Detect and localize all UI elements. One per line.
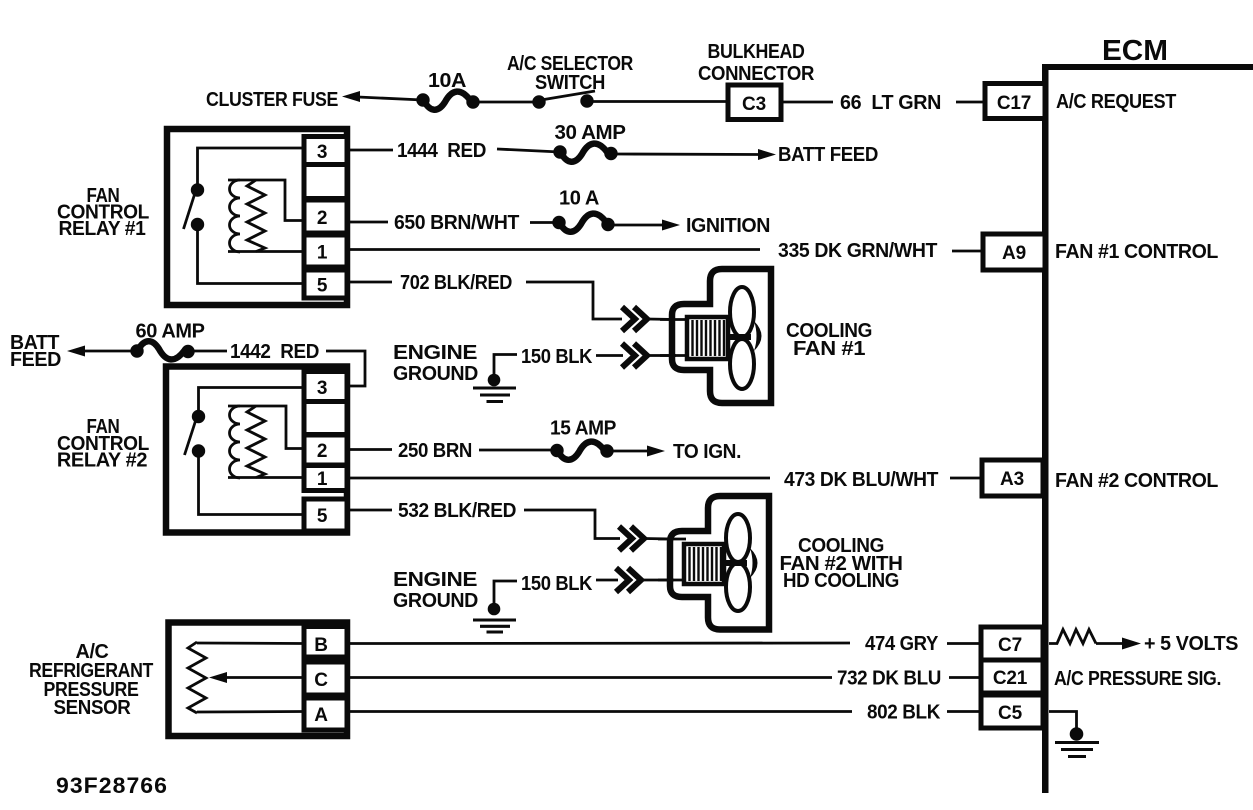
wire chevron to fan M2 lower input bbox=[641, 579, 674, 582]
label COOLING FAN #2 WITH HD COOLING bbox=[780, 535, 903, 592]
inline connector chevrons on 702 wire bbox=[622, 307, 647, 331]
pin A of sensor bbox=[304, 698, 347, 730]
label BATT FEED left bbox=[10, 332, 61, 371]
wire K2 pin2 to label 250 BRN bbox=[349, 448, 392, 451]
pin 1 of K2 bbox=[304, 466, 347, 491]
wire ground G2 stem to 150 BLK bbox=[494, 581, 517, 604]
label BULKHEAD CONNECTOR bbox=[698, 41, 815, 85]
label CLUSTER FUSE bbox=[206, 89, 338, 111]
wire 335 DK GRN/WHT to connector A9 bbox=[952, 250, 984, 253]
svg-text:CONNECTOR: CONNECTOR bbox=[698, 63, 815, 85]
arrow to +5 VOLTS bbox=[1122, 638, 1141, 650]
switch S1 A/C selector bbox=[532, 91, 595, 109]
fan M2 blade lower bbox=[726, 563, 750, 611]
inline connector chevrons on 150 BLK wire bbox=[622, 344, 647, 368]
supply label +5 VOLTS bbox=[1144, 633, 1238, 655]
ground G1 symbol bbox=[473, 374, 516, 402]
fuse F5 15 AMP bbox=[550, 442, 613, 460]
svg-text:FEED: FEED bbox=[10, 349, 61, 371]
svg-text:FAN #1 CONTROL: FAN #1 CONTROL bbox=[1055, 241, 1218, 263]
svg-text:BULKHEAD: BULKHEAD bbox=[708, 41, 805, 63]
wire K2 pin5 to label 532 BLK/RED bbox=[349, 509, 392, 512]
wire label 1442 RED bbox=[230, 341, 319, 363]
svg-text:ENGINE: ENGINE bbox=[393, 342, 477, 364]
pin C of sensor bbox=[304, 662, 347, 695]
wire sensor pin B to label 474 GRY bbox=[349, 642, 850, 645]
svg-text:2: 2 bbox=[317, 441, 327, 462]
wire sensor pin A to label 802 BLK bbox=[349, 710, 852, 713]
wire K2 switch to pin5 bbox=[199, 455, 305, 515]
pin 3 of K1 bbox=[304, 137, 347, 165]
label FAN CONTROL RELAY #2 bbox=[57, 416, 149, 472]
connector C21 bbox=[981, 660, 1043, 693]
cooling fan motor M2 body bbox=[670, 496, 769, 630]
wire 732 DK BLU to connector C21 bbox=[949, 676, 981, 679]
label BATT FEED bbox=[778, 144, 878, 166]
fuse F4 60 AMP bbox=[130, 341, 194, 359]
motor M1 shaft bbox=[728, 334, 751, 340]
wire K1 switch to pin5 bbox=[198, 229, 305, 284]
svg-text:C: C bbox=[314, 670, 328, 691]
wire K1 pin3 to switch contact bbox=[198, 148, 305, 184]
wire 250 BRN to fuse F5 bbox=[479, 449, 554, 452]
svg-text:RELAY #2: RELAY #2 bbox=[57, 450, 147, 472]
svg-text:C7: C7 bbox=[998, 635, 1022, 656]
svg-text:474 GRY: 474 GRY bbox=[865, 633, 939, 655]
arrow to BATT FEED bbox=[758, 149, 776, 160]
relay K1 FAN CONTROL RELAY #1 box bbox=[167, 129, 347, 305]
wire fuse F1 to switch bbox=[473, 101, 540, 104]
svg-text:732 DK BLU: 732 DK BLU bbox=[837, 668, 941, 690]
wire label 474 GRY bbox=[865, 633, 939, 655]
fan M2 rotation mark bbox=[750, 548, 758, 578]
svg-text:FAN #1: FAN #1 bbox=[793, 338, 865, 360]
motor M2 winding hatch box bbox=[684, 544, 724, 584]
svg-text:802 BLK: 802 BLK bbox=[867, 702, 941, 724]
svg-text:GROUND: GROUND bbox=[393, 363, 478, 385]
connector A3 bbox=[982, 460, 1043, 496]
svg-text:5: 5 bbox=[317, 276, 328, 297]
svg-text:2: 2 bbox=[317, 208, 327, 229]
drawing number 93F28766 bbox=[56, 773, 168, 798]
wire label 802 BLK bbox=[867, 702, 941, 724]
value label 60 AMP bbox=[136, 321, 205, 343]
cooling fan motor M1 body bbox=[672, 269, 771, 403]
svg-text:C17: C17 bbox=[997, 93, 1031, 114]
label COOLING FAN #1 bbox=[786, 320, 872, 360]
wire label 702 BLK/RED bbox=[400, 272, 512, 294]
svg-text:335 DK GRN/WHT: 335 DK GRN/WHT bbox=[778, 240, 937, 262]
arrow to IGNITION bbox=[662, 220, 680, 231]
svg-text:A9: A9 bbox=[1002, 243, 1026, 264]
pin label A/C PRESSURE SIG. bbox=[1054, 668, 1221, 690]
connector C7 bbox=[981, 627, 1043, 660]
connector C3 bbox=[728, 85, 781, 120]
wire fuse F4 to label 1442 RED bbox=[194, 350, 227, 353]
value label 15 AMP bbox=[550, 418, 616, 440]
svg-text:SWITCH: SWITCH bbox=[535, 72, 605, 94]
relay K2 coil bbox=[228, 406, 304, 478]
label IGNITION bbox=[686, 215, 770, 237]
wire label 335 DK GRN/WHT bbox=[778, 240, 937, 262]
blank pin of K2 bbox=[304, 402, 347, 435]
inline connector chevrons on 532 wire bbox=[619, 527, 644, 551]
svg-text:150 BLK: 150 BLK bbox=[521, 573, 593, 595]
sensor B1 A/C refrigerant pressure sensor box bbox=[169, 623, 348, 737]
ground G2 symbol bbox=[473, 603, 516, 632]
ECM title label bbox=[1102, 35, 1168, 67]
svg-text:150 BLK: 150 BLK bbox=[521, 346, 593, 368]
ground G3 symbol bbox=[1055, 727, 1099, 756]
svg-text:650 BRN/WHT: 650 BRN/WHT bbox=[394, 212, 519, 234]
motor M2 shaft bbox=[724, 560, 747, 566]
pin B of sensor bbox=[304, 627, 347, 658]
wire fuse F5 to TO IGN. bbox=[613, 450, 648, 453]
wire potentiometer top to pin B bbox=[197, 642, 304, 645]
svg-text:532 BLK/RED: 532 BLK/RED bbox=[398, 500, 516, 522]
svg-text:250 BRN: 250 BRN bbox=[398, 440, 472, 462]
wire fuse F2 to BATT FEED bbox=[617, 153, 760, 156]
svg-text:702 BLK/RED: 702 BLK/RED bbox=[400, 272, 512, 294]
arrow to BATT FEED left bbox=[67, 346, 85, 357]
wire K1 pin5 to label 702 BLK/RED bbox=[349, 281, 392, 284]
svg-text:IGNITION: IGNITION bbox=[686, 215, 770, 237]
label FAN CONTROL RELAY #1 bbox=[57, 185, 149, 240]
wire chevron to fan M1 upper input bbox=[647, 318, 676, 321]
wiper arrow from pin C bbox=[209, 672, 304, 683]
wire label 150 BLK upper bbox=[521, 346, 593, 368]
svg-text:+ 5 VOLTS: + 5 VOLTS bbox=[1144, 633, 1238, 655]
wire 150 BLK to chevron bbox=[596, 579, 618, 582]
svg-text:RELAY #1: RELAY #1 bbox=[59, 218, 146, 240]
svg-text:10A: 10A bbox=[428, 70, 466, 92]
wire C3 to label 66 LT GRN bbox=[781, 101, 833, 104]
pin 3 of K2 bbox=[304, 372, 347, 402]
fuse F3 10 A bbox=[552, 214, 614, 232]
wire potentiometer bottom to pin A bbox=[197, 710, 304, 713]
wire 650 BRN/WHT to fuse F3 bbox=[530, 221, 558, 224]
svg-text:A/C PRESSURE SIG.: A/C PRESSURE SIG. bbox=[1054, 668, 1221, 690]
label TO IGN. bbox=[673, 441, 741, 463]
switch contact K1 bbox=[184, 183, 205, 231]
arrow to TO IGN. bbox=[647, 446, 665, 457]
label ENGINE GROUND upper bbox=[393, 342, 478, 385]
svg-text:ENGINE: ENGINE bbox=[393, 569, 477, 591]
blank pin of K1 bbox=[304, 165, 347, 199]
svg-text:TO IGN.: TO IGN. bbox=[673, 441, 741, 463]
wire cluster-fuse arrow to fuse F1 bbox=[358, 97, 423, 100]
arrow to cluster fuse bbox=[342, 91, 360, 102]
switch contact K2 bbox=[185, 410, 206, 458]
label A/C SELECTOR SWITCH bbox=[507, 53, 634, 94]
wire 150 BLK to chevron bbox=[596, 354, 623, 357]
svg-text:ECM: ECM bbox=[1102, 35, 1168, 67]
svg-text:60 AMP: 60 AMP bbox=[136, 321, 205, 343]
fan M1 blade upper bbox=[730, 287, 754, 337]
wire fuse F3 to IGNITION bbox=[614, 224, 662, 227]
pin 1 of K1 bbox=[304, 235, 347, 267]
pin 2 of K2 bbox=[304, 435, 347, 465]
value label 10A bbox=[428, 70, 466, 92]
svg-text:3: 3 bbox=[317, 142, 327, 163]
svg-text:1: 1 bbox=[317, 469, 328, 490]
connector C5 bbox=[981, 695, 1043, 728]
svg-text:CLUSTER FUSE: CLUSTER FUSE bbox=[206, 89, 338, 111]
ECM module boundary line bbox=[1042, 64, 1253, 793]
wire 802 BLK to connector C5 bbox=[947, 710, 981, 713]
svg-text:C21: C21 bbox=[993, 668, 1028, 689]
wire 474 GRY to connector C7 bbox=[947, 642, 981, 645]
svg-text:473 DK BLU/WHT: 473 DK BLU/WHT bbox=[784, 469, 938, 491]
wire chevron to fan M1 lower input bbox=[647, 354, 676, 357]
wire K2 pin3 to switch contact bbox=[199, 388, 305, 411]
svg-text:3: 3 bbox=[317, 378, 327, 399]
value label 10 A bbox=[559, 188, 599, 210]
svg-text:FAN #2 CONTROL: FAN #2 CONTROL bbox=[1055, 470, 1218, 492]
svg-text:A3: A3 bbox=[1000, 469, 1024, 490]
svg-text:5: 5 bbox=[317, 506, 328, 527]
wire label 650 BRN/WHT bbox=[394, 212, 519, 234]
pin 5 of K1 bbox=[304, 270, 347, 298]
label ENGINE GROUND lower bbox=[393, 569, 478, 612]
svg-text:A/C REQUEST: A/C REQUEST bbox=[1056, 91, 1176, 113]
svg-text:66 LT GRN: 66 LT GRN bbox=[840, 92, 941, 114]
wire label 150 BLK lower bbox=[521, 573, 593, 595]
inline connector chevrons on lower 150 BLK wire bbox=[616, 568, 641, 592]
pin label FAN #2 CONTROL bbox=[1055, 470, 1218, 492]
svg-text:C5: C5 bbox=[998, 703, 1023, 724]
wire 1442 RED elbow to K2 pin3 bbox=[326, 351, 365, 386]
svg-text:93F28766: 93F28766 bbox=[56, 773, 168, 798]
motor M1 winding hatch box bbox=[687, 317, 728, 359]
wire arrow to fuse F4 bbox=[83, 350, 137, 353]
svg-text:1444 RED: 1444 RED bbox=[397, 140, 486, 162]
wire label 1444 RED bbox=[397, 140, 486, 162]
fuse F2 30 AMP bbox=[553, 144, 617, 162]
wire 1444 RED to fuse F2 bbox=[497, 149, 560, 152]
wire label 732 DK BLU bbox=[837, 668, 941, 690]
wire label 250 BRN bbox=[398, 440, 472, 462]
wire 532 BLK/RED elbow to fan M2 bbox=[524, 510, 620, 539]
pin 5 of K2 bbox=[304, 499, 347, 531]
svg-text:C3: C3 bbox=[742, 94, 766, 115]
wire label 473 DK BLU/WHT bbox=[784, 469, 938, 491]
wire stubs into motor M1 bbox=[660, 320, 689, 356]
svg-text:GROUND: GROUND bbox=[393, 590, 478, 612]
fan M1 rotation mark bbox=[754, 321, 762, 351]
wire K1 pin1 to label 335 DK GRN/WHT bbox=[349, 248, 760, 251]
resistor R1 pull-up bbox=[1049, 630, 1096, 644]
wire ground G1 stem to 150 BLK bbox=[494, 355, 517, 376]
svg-text:10 A: 10 A bbox=[559, 188, 599, 210]
relay K2 FAN CONTROL RELAY #2 box bbox=[166, 367, 347, 533]
wire resistor to +5 VOLTS bbox=[1096, 642, 1124, 645]
pin label A/C REQUEST bbox=[1056, 91, 1176, 113]
svg-text:SENSOR: SENSOR bbox=[54, 697, 132, 719]
svg-text:B: B bbox=[314, 635, 328, 656]
wire K1 pin2 to label 650 BRN/WHT bbox=[349, 221, 388, 224]
label A/C REFRIGERANT PRESSURE SENSOR bbox=[29, 641, 153, 719]
sensor potentiometer element bbox=[188, 642, 206, 713]
wire 66 LT GRN to connector C17 bbox=[956, 101, 985, 104]
wire sensor pin C to label 732 DK BLU bbox=[349, 676, 832, 679]
wire K2 pin1 to label 473 DK BLU/WHT bbox=[349, 477, 770, 480]
fan M2 blade upper bbox=[726, 514, 750, 562]
wire label 532 BLK/RED bbox=[398, 500, 516, 522]
svg-text:30 AMP: 30 AMP bbox=[555, 122, 626, 144]
svg-text:HD COOLING: HD COOLING bbox=[783, 570, 899, 592]
pin 2 of K1 bbox=[304, 200, 347, 233]
wire K1 pin3 to label 1444 RED bbox=[349, 149, 393, 152]
svg-text:A: A bbox=[314, 705, 328, 726]
pin label FAN #1 CONTROL bbox=[1055, 241, 1218, 263]
relay K1 coil bbox=[228, 180, 304, 252]
value label 30 AMP bbox=[555, 122, 626, 144]
connector C17 bbox=[985, 84, 1045, 119]
wire C5 to ground G3 bbox=[1049, 712, 1077, 729]
fan M1 blade lower bbox=[730, 339, 754, 389]
svg-text:15 AMP: 15 AMP bbox=[550, 418, 616, 440]
wire stubs into motor M2 bbox=[658, 539, 686, 580]
svg-text:BATT FEED: BATT FEED bbox=[778, 144, 878, 166]
wire 702 BLK/RED elbow to fan M1 bbox=[526, 282, 622, 319]
wire 473 DK BLU/WHT to connector A3 bbox=[950, 477, 983, 480]
connector A9 bbox=[983, 234, 1045, 270]
wire chevron to fan M2 upper input bbox=[644, 537, 674, 540]
wire switch to connector C3 bbox=[587, 100, 728, 103]
svg-text:1442 RED: 1442 RED bbox=[230, 341, 319, 363]
fuse F1 10A bbox=[416, 92, 479, 110]
svg-text:1: 1 bbox=[317, 243, 328, 264]
wire label 66 LT GRN bbox=[840, 92, 941, 114]
